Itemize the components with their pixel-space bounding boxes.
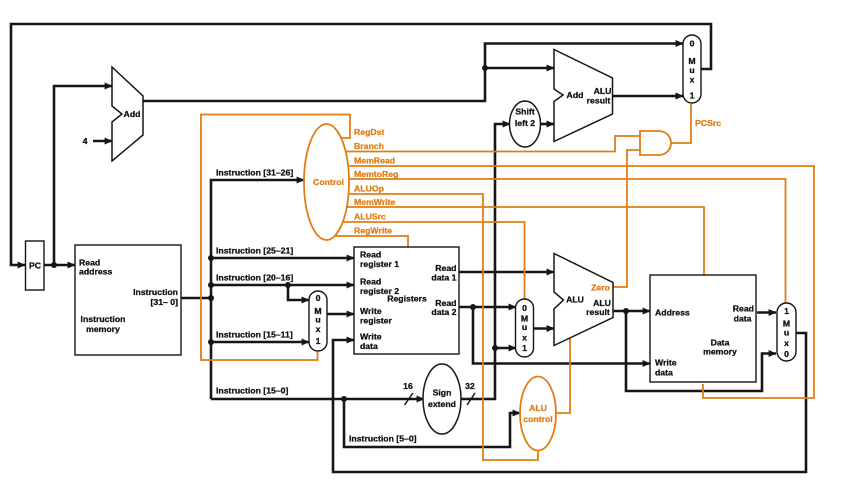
oval: Sign extend xyxy=(423,364,461,434)
wire: Read data 2 down to data memory write data xyxy=(473,307,650,364)
alu: main ALU xyxy=(554,254,613,346)
svg-text:control: control xyxy=(523,414,552,424)
wire: Add (PC+4) result to PCSrc mux input 0 xyxy=(143,44,683,102)
svg-text:Address: Address xyxy=(655,308,690,318)
svg-text:32: 32 xyxy=(465,381,475,391)
wire: MemtoReg mux output write-back to Registers write data xyxy=(333,333,806,472)
svg-text:1: 1 xyxy=(784,306,789,316)
svg-text:[31– 0]: [31– 0] xyxy=(150,297,178,307)
svg-text:x: x xyxy=(690,75,695,85)
register: PC box xyxy=(26,241,45,290)
svg-text:Sign: Sign xyxy=(433,388,452,398)
wire: control Branch signal to AND gate xyxy=(330,136,641,152)
node: junction bus at 258 xyxy=(208,255,214,261)
svg-text:PC: PC xyxy=(29,261,42,271)
wire: RegDst mux output to Write register xyxy=(327,313,354,316)
wire: branch adder ALU result to PCSrc mux input 1 xyxy=(613,95,684,98)
svg-text:x: x xyxy=(522,333,527,343)
svg-text:memory: memory xyxy=(703,347,737,357)
svg-text:data: data xyxy=(360,341,378,351)
svg-text:MemRead: MemRead xyxy=(354,156,395,166)
svg-text:PCSrc: PCSrc xyxy=(695,118,721,128)
wire: Instruction [5-0] to ALU control xyxy=(344,399,520,447)
wire: control MemWrite signal to data memory xyxy=(334,207,704,275)
svg-text:register 1: register 1 xyxy=(360,259,399,269)
wire: Instruction [20-16] branch down to RegDst mux input 0 xyxy=(288,285,309,300)
svg-text:Branch: Branch xyxy=(354,141,384,151)
wire: Instruction [25-21] to Read register 1 xyxy=(211,257,354,260)
svg-text:Add: Add xyxy=(124,109,141,119)
node: junction on PC output xyxy=(51,262,57,268)
svg-text:x: x xyxy=(316,324,321,334)
wire: control RegWrite signal to Registers xyxy=(331,236,408,248)
wire: control MemRead signal to data memory xyxy=(332,166,814,398)
svg-text:left 2: left 2 xyxy=(515,118,535,128)
node: junction PC+4 branch to second adder xyxy=(482,65,488,71)
wire: Read data 1 to ALU top input xyxy=(459,271,554,274)
svg-text:u: u xyxy=(315,315,320,325)
svg-text:1: 1 xyxy=(522,343,527,353)
wire: control ALUOp signal to ALU control xyxy=(334,194,538,460)
svg-text:Write: Write xyxy=(360,332,382,342)
node: junction instruction bus at IM output xyxy=(208,295,214,301)
svg-text:Write: Write xyxy=(655,358,677,368)
svg-text:ALU: ALU xyxy=(594,86,612,96)
svg-text:1: 1 xyxy=(690,91,695,101)
tick: 16-bit slash xyxy=(405,393,414,405)
svg-text:register: register xyxy=(360,316,392,326)
adder: Add PC+4 xyxy=(112,67,143,161)
svg-text:data: data xyxy=(734,314,752,324)
svg-text:Instruction: Instruction xyxy=(133,287,178,297)
svg-text:RegWrite: RegWrite xyxy=(354,226,392,236)
memory: instruction memory box xyxy=(75,245,181,355)
svg-text:data: data xyxy=(655,368,673,378)
svg-text:Add: Add xyxy=(567,90,584,100)
wire: AND gate output PCSrc to PCSrc mux select xyxy=(670,104,691,143)
node: junction at 288,285 xyxy=(285,282,291,288)
svg-text:0: 0 xyxy=(784,349,789,359)
wire: ALU result to data memory address xyxy=(613,310,650,313)
svg-text:Instruction [20–16]: Instruction [20–16] xyxy=(216,273,293,283)
oval: ALU control xyxy=(520,377,556,451)
memory: data memory box xyxy=(650,275,756,382)
node: junction bus at 285 xyxy=(208,282,214,288)
wire: Instruction [20-16] to Read register 2 xyxy=(211,284,354,287)
wire: PC feedback loop from PCSrc mux output around top to PC input xyxy=(11,24,711,265)
svg-text:Instruction [31–26]: Instruction [31–26] xyxy=(216,168,293,178)
svg-text:x: x xyxy=(784,338,789,348)
gate: AND gate (branch and zero) xyxy=(640,131,671,155)
svg-text:16: 16 xyxy=(403,381,413,391)
svg-text:Shift: Shift xyxy=(515,107,534,117)
svg-text:u: u xyxy=(522,322,527,332)
wire: ALUSrc mux output to ALU bottom input xyxy=(534,327,554,330)
svg-text:Read: Read xyxy=(360,277,381,287)
svg-text:address: address xyxy=(79,267,112,277)
svg-text:Registers: Registers xyxy=(387,294,427,304)
svg-text:4: 4 xyxy=(83,136,88,146)
svg-text:ALU: ALU xyxy=(529,403,547,413)
wire: control RegDst signal to RegDst mux select xyxy=(201,115,350,361)
svg-text:u: u xyxy=(784,328,789,338)
svg-text:memory: memory xyxy=(86,324,120,334)
wire: sign extend value to ALUSrc mux input 1 xyxy=(495,347,516,350)
tick: 32-bit slash xyxy=(467,393,475,405)
mux: ALUSrc mux xyxy=(516,299,534,357)
wire: ALU control output to ALU select xyxy=(556,338,570,413)
svg-text:0: 0 xyxy=(690,39,695,49)
wire: control MemtoReg signal to MemtoReg mux select xyxy=(333,179,786,305)
node: junction sign-extend line to ALUSrc mux input 1 xyxy=(492,345,498,351)
wire: ALU result bypass around data memory to MemtoReg mux input 0 xyxy=(626,311,776,391)
svg-text:u: u xyxy=(689,65,694,75)
svg-text:Write: Write xyxy=(360,306,382,316)
svg-text:MemWrite: MemWrite xyxy=(354,197,396,207)
svg-text:Instruction [25–21]: Instruction [25–21] xyxy=(216,246,293,256)
node: junction ALU result xyxy=(623,308,629,314)
wire: PC output up to Add (PC+4) top input xyxy=(54,86,112,265)
mux: RegDst mux xyxy=(309,291,327,351)
svg-text:data 1: data 1 xyxy=(431,273,456,283)
svg-text:result: result xyxy=(587,96,611,106)
wire: data memory read data to MemtoReg mux input 1 xyxy=(757,311,776,314)
svg-text:0: 0 xyxy=(522,303,527,313)
node: junction Instruction[15-0] branch xyxy=(341,396,347,402)
wire: Instruction [15-11] to RegDst mux input 1 xyxy=(211,341,309,344)
mux: MemtoReg mux xyxy=(777,303,796,361)
svg-text:Instruction [5–0]: Instruction [5–0] xyxy=(349,434,417,444)
svg-text:extend: extend xyxy=(428,399,456,409)
wire: constant 4 into Add xyxy=(93,140,112,143)
node: junction read data 2 xyxy=(470,304,476,310)
wire: Instruction [15-0] to sign extend xyxy=(211,398,424,401)
svg-text:ALU: ALU xyxy=(566,295,584,305)
register file: Registers box xyxy=(354,247,459,354)
wire: PC+4 to branch adder top input xyxy=(485,67,554,70)
svg-text:Read: Read xyxy=(435,263,456,273)
svg-text:ALUOp: ALUOp xyxy=(354,184,384,194)
wire: instruction memory output to instruction bus xyxy=(181,297,211,300)
wire: instruction bus vertical and Instruction [31-26] into Control xyxy=(211,180,304,399)
svg-text:ALUSrc: ALUSrc xyxy=(354,212,386,222)
wire: ALU Zero flag to AND gate xyxy=(613,150,641,287)
svg-text:Zero: Zero xyxy=(591,283,610,293)
mux: PCSrc mux xyxy=(683,35,701,103)
svg-text:RegDst: RegDst xyxy=(354,127,385,137)
svg-text:1: 1 xyxy=(316,336,321,346)
svg-text:Read: Read xyxy=(360,250,381,260)
wire: Read data 2 to ALUSrc mux input 0 xyxy=(459,306,516,309)
oval: Control unit xyxy=(304,124,349,240)
svg-text:Read: Read xyxy=(733,304,754,314)
oval: Shift left 2 xyxy=(510,101,541,147)
svg-text:data 2: data 2 xyxy=(431,307,456,317)
svg-text:MemtoReg: MemtoReg xyxy=(354,169,398,179)
wire: shift left 2 output to branch adder bottom input xyxy=(540,123,554,126)
svg-text:Instruction: Instruction xyxy=(81,314,126,324)
wire: control ALUSrc signal to ALUSrc mux select xyxy=(333,222,525,300)
svg-text:result: result xyxy=(586,307,610,317)
wire: PC to instruction memory read address xyxy=(44,264,75,267)
svg-text:Instruction [15–11]: Instruction [15–11] xyxy=(216,330,293,340)
node: junction bus at 342 xyxy=(208,339,214,345)
svg-text:0: 0 xyxy=(316,293,321,303)
svg-text:Control: Control xyxy=(313,177,344,187)
svg-text:Instruction [15–0]: Instruction [15–0] xyxy=(216,386,289,396)
adder: branch target Add xyxy=(554,50,613,142)
wire: sign extend output up to shift left 2 xyxy=(461,124,510,399)
